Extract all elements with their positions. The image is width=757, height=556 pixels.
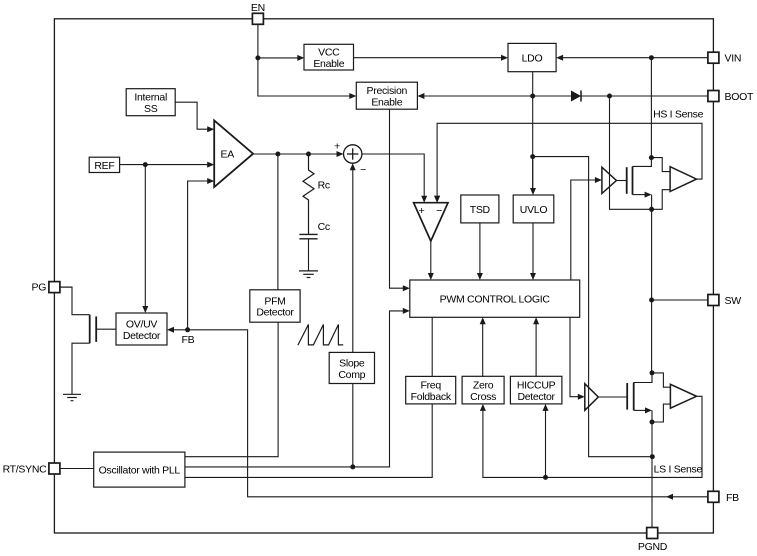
junction dot BOOT branch (607, 94, 612, 99)
svg-text:+: + (334, 140, 340, 152)
wire VCC to Precision Enable (421, 95, 533, 97)
waveform sawtooth icon (298, 325, 343, 346)
svg-text:+: + (419, 205, 425, 217)
svg-text:Internal: Internal (134, 92, 167, 104)
wire VCC rail to LS driver (533, 157, 653, 457)
svg-text:Cross: Cross (470, 391, 496, 403)
block Zero Cross (462, 376, 504, 404)
wire PGND rail (651, 422, 653, 528)
wire FB to EA (188, 181, 211, 330)
svg-text:FB: FB (726, 492, 739, 504)
block Freq Foldback (406, 376, 456, 404)
wire PG drain (60, 287, 90, 315)
svg-text:Detector: Detector (517, 391, 555, 403)
svg-text:Precision: Precision (367, 85, 408, 97)
svg-text:Detector: Detector (123, 330, 161, 342)
svg-text:Rc: Rc (318, 180, 330, 192)
junction dot LS drain (650, 370, 655, 375)
op-amp EA (error amplifier) (214, 120, 253, 187)
svg-text:HS I Sense: HS I Sense (653, 109, 704, 121)
arrow into OV/UV top (142, 306, 148, 313)
block REF (89, 157, 119, 172)
arrow into LS driver (578, 394, 585, 400)
pin RT/SYNC (3, 463, 60, 476)
wire oscillator to freq foldback (185, 404, 432, 478)
wire LS gate control (570, 317, 581, 396)
wire HS sense upper tap (651, 158, 670, 172)
junction dot VCC node (530, 94, 535, 99)
arrow TSD into PWM (477, 273, 483, 280)
svg-text:−: − (436, 205, 442, 217)
wire SW rail (651, 209, 653, 373)
svg-text:Slope: Slope (339, 357, 365, 369)
svg-text:Zero: Zero (473, 379, 494, 391)
block TSD (461, 195, 499, 223)
junction dot VCC rail (530, 154, 535, 159)
junction dot slope comp row (350, 464, 355, 469)
wire diode to BOOT (581, 95, 708, 97)
wire Q2 drain (634, 373, 652, 383)
arrow into comparator minus (434, 196, 440, 203)
svg-text:Detector: Detector (256, 307, 294, 319)
wire EA output (253, 153, 340, 155)
wire Precision Enable to PWM (390, 109, 407, 288)
wire RT/SYNC to oscillator (60, 468, 94, 470)
wire HS gate control (571, 180, 599, 280)
svg-text:BOOT: BOOT (725, 91, 754, 103)
summing junction node (334, 140, 366, 176)
wire HS driver rail (BOOT feed) (610, 96, 652, 209)
resistor Rc (303, 154, 330, 234)
svg-text:Oscillator with PLL: Oscillator with PLL (99, 465, 181, 477)
wire Internal SS to EA (175, 102, 211, 129)
arrow into EA mid input (207, 162, 214, 168)
arrow into HS driver (595, 177, 602, 183)
arrow into VCC Enable (297, 55, 304, 61)
junction dot HS drain (649, 155, 654, 160)
capacitor Cc (299, 221, 329, 271)
wire REF to OV/UV detector (144, 165, 146, 310)
wire Q2 source (with arrow) (634, 407, 652, 422)
wire HS I Sense output (437, 123, 702, 199)
wire TSD to PWM (479, 223, 481, 277)
wire VCC Enable to LDO (354, 57, 505, 59)
wire UVLO to PWM (532, 223, 534, 277)
block VCC Enable (304, 44, 354, 70)
wire EN feed (258, 24, 353, 96)
pin PGND (638, 528, 668, 554)
op-amp HS current sense amplifier (670, 167, 696, 192)
buffer HS gate driver (602, 167, 617, 193)
wire LS sense to hiccup (545, 408, 547, 478)
junction dot SW node (649, 298, 654, 303)
svg-text:REF: REF (94, 160, 114, 172)
block PWM CONTROL LOGIC (410, 280, 580, 317)
wire slope comp to oscillator row (352, 384, 354, 467)
svg-text:Enable: Enable (371, 97, 402, 109)
wire EN to VCC Enable (258, 57, 301, 59)
arrow into OV/UV right (167, 327, 174, 333)
svg-text:RT/SYNC: RT/SYNC (3, 464, 48, 476)
arrow into summing left (337, 151, 344, 157)
arrow into hiccup bottom (543, 404, 549, 411)
junction dot REF branch (143, 162, 148, 167)
arrow oscillator into PWM (403, 308, 410, 314)
arrow Precision Enable into PWM (403, 285, 410, 291)
transistor Q1 (HS NMOS) (616, 166, 632, 194)
junction dot EA out PFM branch (275, 152, 280, 157)
wire LS sense lower tap (652, 404, 670, 422)
wire PG source (72, 343, 90, 394)
wire PFM Detector to oscillator (185, 322, 278, 457)
arrow into zero cross bottom (480, 404, 486, 411)
svg-text:−: − (360, 164, 366, 176)
junction dot LS sense row (543, 475, 548, 480)
pin BOOT (708, 91, 754, 104)
arrow into comparator plus (421, 196, 427, 203)
junction dot EN/VCC Enable (255, 55, 260, 60)
wire VIN rail down (650, 58, 652, 158)
svg-text:EA: EA (221, 148, 235, 160)
wire summing to comparator (362, 154, 424, 199)
block Internal SS (126, 89, 175, 116)
svg-text:LDO: LDO (522, 53, 543, 65)
block LDO (508, 43, 556, 71)
buffer LS gate driver (585, 384, 599, 411)
wire SW to pin (652, 299, 708, 301)
pin SW (708, 295, 741, 308)
wire zero cross to PWM (482, 321, 484, 376)
arrow on FB wire (666, 494, 673, 500)
block UVLO (513, 195, 554, 223)
svg-text:Enable: Enable (313, 58, 344, 70)
block Precision Enable (356, 82, 417, 109)
arrow into LDO left (501, 55, 508, 61)
junction dot EA out Rc branch (306, 152, 311, 157)
diode D1 (VCC to BOOT) (571, 91, 581, 102)
block HICCUP Detector (510, 376, 562, 404)
svg-text:Freq: Freq (421, 380, 442, 392)
svg-text:SS: SS (144, 103, 158, 115)
svg-text:TSD: TSD (470, 204, 491, 216)
pin FB (708, 491, 739, 504)
junction dot LS source (650, 420, 655, 425)
svg-text:UVLO: UVLO (520, 204, 548, 216)
wire LS sense upper tap (652, 373, 670, 387)
svg-text:OV/UV: OV/UV (126, 318, 157, 330)
wire HS sense lower tap (652, 190, 671, 210)
arrow into summing bottom (350, 163, 356, 170)
comparator U-PWM (+ -) (414, 203, 448, 241)
svg-text:PGND: PGND (638, 541, 668, 553)
block Oscillator with PLL (94, 452, 185, 487)
svg-text:PG: PG (32, 282, 47, 294)
arrow into UVLO top (530, 188, 536, 195)
svg-text:Cc: Cc (318, 221, 330, 233)
arrow into HS comparator input (434, 196, 440, 203)
svg-text:Comp: Comp (338, 369, 365, 381)
block OV/UV Detector (116, 313, 167, 345)
wire FB from pin (171, 330, 708, 497)
svg-text:FB: FB (182, 334, 195, 346)
wire PG pin stub (60, 286, 72, 288)
wire comparator to PWM (430, 241, 432, 277)
arrow into Precision Enable left (349, 93, 356, 99)
arrow comparator out into PWM (428, 273, 434, 280)
transistor Q2 (LS NMOS) (598, 383, 633, 411)
junction dot HS source (649, 207, 654, 212)
wire summing input from slope comp (352, 168, 354, 352)
svg-text:LS I Sense: LS I Sense (654, 463, 703, 475)
pin VIN (708, 52, 741, 64)
arrow into EA bottom input (207, 178, 214, 184)
wire oscillator to PWM (185, 311, 407, 467)
svg-text:EN: EN (251, 2, 265, 14)
ground (below Cc) (299, 271, 318, 278)
junction dot LS driver rail (650, 454, 655, 459)
wire LS I Sense output (483, 396, 702, 477)
ground (PG source) (63, 394, 81, 400)
block Slope Comp (329, 352, 374, 383)
wire REF to EA (120, 164, 211, 166)
wire hiccup to PWM (535, 321, 537, 376)
wire Q1 source (with arrow) (633, 192, 652, 210)
junction dot FB node (185, 327, 190, 332)
junction dot VIN rail (649, 55, 654, 60)
pin EN (251, 2, 265, 24)
arrow hiccup into PWM bottom (533, 317, 539, 324)
transistor Q3 (PG open-drain FET) (90, 315, 116, 344)
arrow zero cross into PWM bottom (480, 317, 486, 324)
svg-text:HICCUP: HICCUP (517, 379, 556, 391)
wire VIN to LDO (559, 57, 708, 59)
svg-text:PWM CONTROL LOGIC: PWM CONTROL LOGIC (440, 294, 551, 306)
wire EA to PFM Detector (277, 154, 279, 290)
wire UVLO top feed (532, 157, 534, 192)
svg-text:Foldback: Foldback (411, 391, 452, 403)
svg-text:VIN: VIN (725, 53, 742, 65)
svg-text:VCC: VCC (318, 47, 340, 59)
arrow into LDO right (556, 55, 563, 61)
wire LDO output down (532, 72, 534, 192)
wire Q1 drain (633, 158, 652, 167)
arrow into Precision Enable right (417, 93, 424, 99)
arrow into EA top input (207, 126, 214, 132)
op-amp LS current sense amplifier (670, 384, 696, 408)
block PFM Detector (250, 290, 300, 322)
pin PG (32, 282, 60, 294)
arrow UVLO into PWM (530, 273, 536, 280)
svg-text:PFM: PFM (264, 295, 285, 307)
svg-text:SW: SW (725, 295, 742, 307)
wire VCC to diode anode (533, 95, 571, 97)
wire freq foldback to PWM (431, 317, 433, 376)
